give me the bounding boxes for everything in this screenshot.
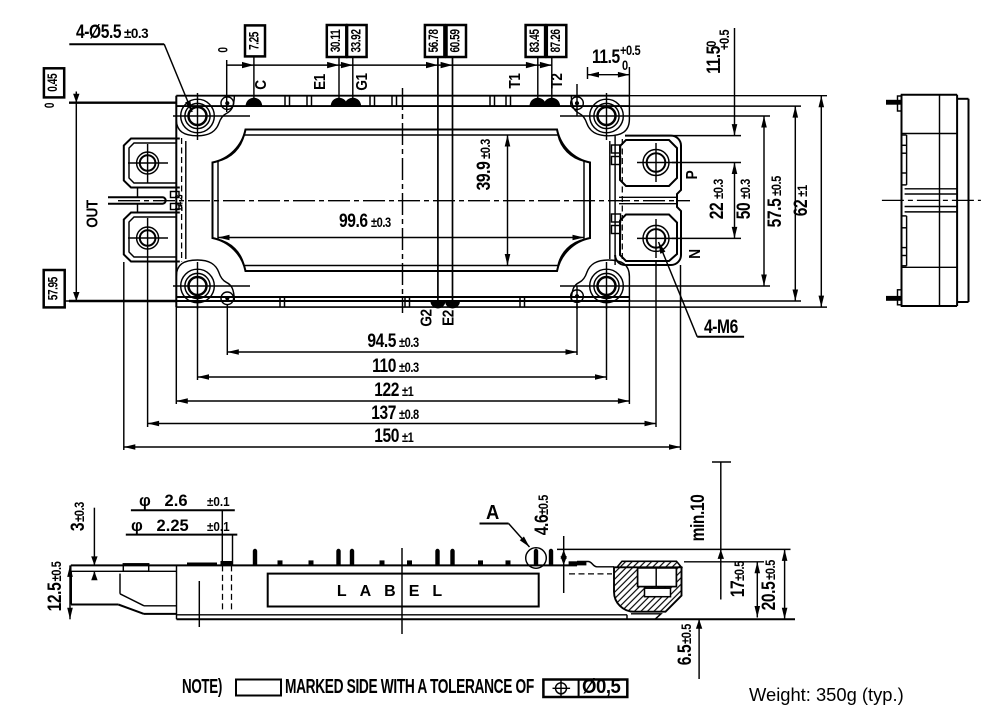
svg-text:94.5: 94.5	[367, 330, 396, 352]
svg-text:±0.5: ±0.5	[732, 561, 747, 581]
svg-text:6.5: 6.5	[674, 644, 696, 665]
svg-text:G1: G1	[354, 73, 371, 90]
svg-text:N: N	[687, 249, 704, 258]
svg-text:±0.3: ±0.3	[711, 179, 726, 199]
svg-text:±0.3: ±0.3	[371, 215, 391, 230]
svg-text:Weight: 350g (typ.): Weight: 350g (typ.)	[749, 685, 904, 705]
svg-text:A: A	[486, 502, 499, 524]
svg-text:min.10: min.10	[687, 495, 709, 542]
svg-text:+0.5: +0.5	[620, 43, 641, 58]
svg-text:56.78: 56.78	[425, 29, 441, 53]
svg-text:57.95: 57.95	[45, 277, 61, 301]
svg-text:±0.3: ±0.3	[399, 360, 419, 375]
svg-text:±0.5: ±0.5	[679, 624, 694, 644]
svg-text:E1: E1	[312, 74, 329, 90]
svg-text:20.5: 20.5	[758, 581, 780, 610]
svg-text:87.26: 87.26	[547, 29, 563, 53]
svg-text:±0.8: ±0.8	[399, 407, 419, 422]
svg-text:30.11: 30.11	[327, 29, 343, 52]
svg-text:0: 0	[215, 47, 231, 53]
svg-text:4-M6: 4-M6	[704, 316, 739, 338]
svg-text:P: P	[684, 170, 701, 179]
svg-text:φ 2.25: φ 2.25	[131, 517, 189, 535]
svg-text:12.5: 12.5	[44, 582, 66, 611]
svg-text:22: 22	[706, 203, 728, 220]
svg-text:±0.5: ±0.5	[536, 495, 551, 515]
svg-text:±0.3: ±0.3	[478, 139, 493, 159]
svg-text:39.9: 39.9	[473, 161, 495, 190]
svg-text:14.3: 14.3	[174, 194, 186, 212]
svg-text:G2: G2	[419, 309, 436, 326]
svg-text:±0.1: ±0.1	[207, 519, 230, 534]
svg-text:0: 0	[41, 102, 57, 108]
svg-text:0: 0	[704, 41, 719, 47]
svg-text:11.5: 11.5	[592, 46, 621, 68]
svg-text:T1: T1	[507, 73, 524, 88]
svg-text:4.6: 4.6	[531, 514, 553, 535]
svg-text:±0.1: ±0.1	[207, 494, 230, 509]
svg-text:±0.5: ±0.5	[769, 176, 784, 196]
svg-text:3: 3	[67, 522, 89, 531]
svg-text:±1: ±1	[402, 384, 414, 399]
svg-text:C: C	[253, 80, 270, 90]
svg-text:137: 137	[371, 402, 396, 424]
svg-text:±0.3: ±0.3	[124, 26, 149, 41]
svg-text:T2: T2	[549, 73, 566, 88]
svg-text:±0.5: ±0.5	[763, 560, 778, 580]
svg-text:0: 0	[622, 58, 628, 73]
svg-text:LABEL: LABEL	[337, 583, 455, 600]
svg-text:62: 62	[790, 200, 812, 217]
svg-text:33.92: 33.92	[348, 29, 364, 53]
svg-text:±0.3: ±0.3	[72, 502, 87, 522]
svg-text:110: 110	[372, 355, 396, 377]
svg-text:122: 122	[374, 379, 399, 401]
svg-text:17: 17	[727, 581, 749, 598]
svg-text:±1: ±1	[795, 185, 810, 197]
svg-text:NOTE): NOTE)	[182, 675, 222, 697]
svg-text:OUT: OUT	[85, 200, 102, 228]
svg-text:7.25: 7.25	[246, 31, 262, 49]
svg-text:φ 2.6: φ 2.6	[139, 492, 188, 510]
svg-text:57.5: 57.5	[764, 198, 786, 227]
svg-text:99.6: 99.6	[339, 210, 368, 232]
svg-text:83.45: 83.45	[526, 29, 542, 53]
svg-text:E2: E2	[441, 310, 458, 326]
svg-text:4-Ø5.5: 4-Ø5.5	[76, 21, 122, 43]
svg-text:50: 50	[733, 203, 755, 220]
svg-text:±1: ±1	[402, 430, 414, 445]
svg-text:±0.3: ±0.3	[738, 179, 753, 199]
svg-text:150: 150	[374, 425, 399, 447]
svg-text:±0.3: ±0.3	[399, 335, 419, 350]
svg-text:±0.5: ±0.5	[49, 561, 64, 581]
svg-text:Ø0,5: Ø0,5	[582, 676, 621, 698]
svg-text:60.59: 60.59	[447, 29, 463, 53]
svg-text:0.45: 0.45	[45, 73, 61, 91]
svg-text:MARKED SIDE WITH A TOLERANCE O: MARKED SIDE WITH A TOLERANCE OF	[285, 674, 534, 697]
